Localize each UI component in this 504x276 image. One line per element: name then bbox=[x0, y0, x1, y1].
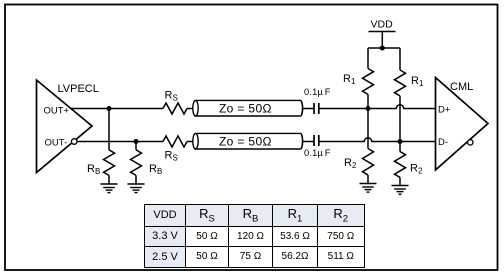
inversion bubble CML bbox=[468, 140, 473, 145]
svg-text:OUT-: OUT- bbox=[45, 137, 68, 148]
ground (R2 right) bbox=[392, 186, 409, 195]
svg-text:R2: R2 bbox=[410, 163, 423, 176]
junction node: VDD rail bbox=[380, 46, 385, 51]
junction node: D+ / left divider bbox=[366, 106, 371, 111]
svg-text:D+: D+ bbox=[438, 104, 451, 115]
svg-text:RB: RB bbox=[87, 163, 100, 176]
capacitor 0.1uF (top) bbox=[314, 103, 319, 114]
junction node: D- / right divider bbox=[398, 139, 403, 144]
svg-text:D-: D- bbox=[438, 137, 448, 148]
wire cap top to D+ (hop over right divider) bbox=[319, 105, 436, 109]
svg-text:Zo = 50Ω: Zo = 50Ω bbox=[219, 135, 272, 149]
resistor R1 (left) bbox=[363, 48, 374, 109]
wire tline bottom to cap bbox=[303, 141, 314, 143]
resistor RS (bottom) bbox=[163, 136, 187, 147]
CML receiver U2 bbox=[436, 78, 489, 171]
transmission line Zo=50 (bottom) bbox=[193, 133, 303, 149]
svg-text:RS: RS bbox=[165, 90, 178, 103]
transmission line Zo=50 (top) bbox=[193, 100, 303, 116]
resistor RS (top) bbox=[163, 103, 187, 114]
ground (R2 left) bbox=[360, 184, 377, 193]
svg-text:R2: R2 bbox=[344, 157, 357, 170]
wire Rs bottom to tline bbox=[187, 141, 193, 143]
LVPECL driver U1 bbox=[37, 80, 93, 173]
svg-text:VDD: VDD bbox=[371, 19, 394, 31]
resistor R1 (right) bbox=[395, 48, 406, 142]
resistor RB (left) with lead from OUT+ line bbox=[104, 109, 115, 185]
capacitor 0.1uF (bottom) bbox=[314, 135, 319, 146]
wire Rs top to tline bbox=[187, 108, 193, 110]
svg-text:LVPECL: LVPECL bbox=[58, 83, 99, 95]
junction node: OUT+ / RB left tap bbox=[107, 106, 112, 111]
svg-text:CML: CML bbox=[450, 81, 473, 93]
svg-text:RS: RS bbox=[165, 150, 178, 163]
svg-text:0.1µF: 0.1µF bbox=[304, 87, 331, 97]
inversion bubble on OUT- bbox=[71, 139, 77, 145]
ground (RB right) bbox=[128, 184, 145, 193]
VDD supply symbol bbox=[369, 32, 396, 49]
svg-text:RB: RB bbox=[149, 163, 162, 176]
svg-text:0.1µF: 0.1µF bbox=[304, 148, 331, 158]
svg-text:R1: R1 bbox=[411, 75, 424, 88]
wire OUT+ to Rs top bbox=[71, 108, 164, 110]
VDD rail wire bbox=[368, 47, 400, 49]
svg-text:Zo = 50Ω: Zo = 50Ω bbox=[219, 102, 272, 116]
resistor R2 (right) bbox=[395, 142, 406, 186]
resistor R2 (left) with lead crossing D- line bbox=[363, 109, 374, 184]
wire OUT- to Rs bottom bbox=[77, 141, 163, 143]
wire tline top to cap bbox=[303, 108, 314, 110]
svg-text:R1: R1 bbox=[343, 73, 356, 86]
table of resistor values bbox=[144, 204, 365, 268]
wire cap bottom to D- (hop over left divider) bbox=[319, 138, 436, 142]
ground (RB left) bbox=[101, 184, 118, 193]
junction node: OUT- / RB right tap bbox=[134, 139, 139, 144]
resistor RB (right) with lead from OUT- line bbox=[131, 142, 142, 185]
svg-text:OUT+: OUT+ bbox=[44, 105, 70, 116]
